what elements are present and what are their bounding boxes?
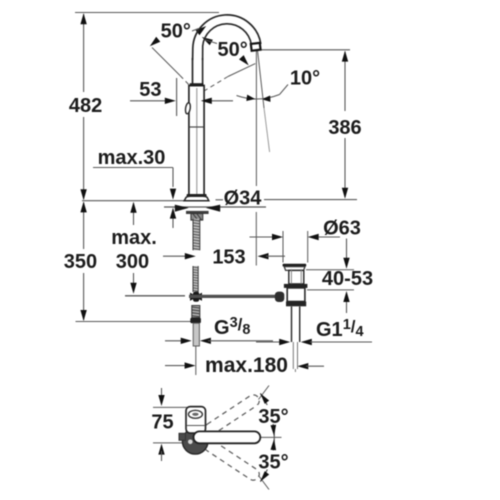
supply pipe lower	[193, 323, 199, 346]
water stream line	[258, 51, 264, 108]
mounting nut	[191, 214, 203, 221]
deck top line	[82, 200, 184, 202]
75 bottom extension	[153, 442, 189, 444]
50deg left leader line	[152, 48, 180, 76]
threaded shank	[193, 219, 200, 251]
faucet body	[189, 86, 204, 201]
svg-text:53: 53	[139, 79, 161, 101]
482 down arrow	[80, 189, 86, 200]
50deg right spout arrow	[202, 37, 213, 45]
swivel arc mid lower arrow	[271, 439, 277, 450]
O63 right arrow	[308, 234, 319, 240]
horizontal pop-up rod	[189, 295, 276, 298]
spout centerline extension	[258, 436, 282, 438]
350 bottom extension	[76, 321, 197, 323]
max30 leader	[93, 167, 173, 169]
swivel arc mid upper arrow	[271, 425, 277, 436]
50deg right diag arrow	[239, 55, 249, 65]
386 top extension	[260, 49, 350, 51]
svg-text:Ø34: Ø34	[224, 187, 263, 209]
G3/8 left arrow	[181, 338, 192, 344]
10deg right arc arrow	[262, 96, 271, 102]
svg-text:max.180: max.180	[205, 354, 288, 377]
top view spout	[194, 431, 261, 443]
rod clevis	[275, 292, 284, 302]
53 dimension	[130, 100, 165, 102]
top view body	[186, 407, 206, 434]
max300 dimension line	[133, 203, 135, 225]
faucet riser pipe	[192, 58, 194, 84]
svg-text:max.: max.	[111, 227, 157, 249]
drain lower band	[286, 302, 306, 307]
faucet spout outer curve	[193, 15, 261, 60]
swivel arc bottom arrow	[260, 471, 269, 482]
rod tee	[190, 293, 202, 301]
482 up arrow	[80, 13, 86, 24]
50deg left spout arrow	[196, 26, 207, 35]
svg-text:35°: 35°	[258, 406, 288, 428]
35deg label top	[257, 405, 291, 424]
drain center extension	[294, 369, 296, 372]
swivel arc	[260, 393, 274, 481]
body mid seam	[189, 126, 203, 128]
svg-text:482: 482	[69, 95, 102, 117]
350 up arrow	[80, 201, 86, 212]
G3/8 right arrow	[200, 338, 211, 344]
svg-text:max.30: max.30	[98, 147, 166, 169]
top view lever oval	[188, 410, 202, 418]
350 dimension line	[83, 203, 85, 250]
max180 dimension	[165, 365, 188, 367]
svg-text:10°: 10°	[290, 68, 320, 90]
clamp wedge right	[206, 205, 220, 212]
40-53 dimension line	[346, 239, 348, 262]
53 right arrow	[201, 98, 212, 104]
aerator	[251, 43, 261, 51]
max180 left arrow	[185, 362, 196, 368]
G3/8 dimension	[165, 340, 184, 342]
G1-1/4 right arrow	[301, 339, 312, 345]
drain tailpipe	[291, 307, 293, 343]
drain upper body	[289, 270, 304, 284]
wire top extension line	[75, 12, 219, 14]
drain nut band	[284, 284, 308, 288]
10deg leader	[280, 85, 289, 95]
top view left nub	[179, 433, 186, 440]
lower dashed axis extension	[259, 476, 270, 490]
75 dimension	[161, 388, 163, 398]
svg-text:40-53: 40-53	[322, 268, 373, 290]
drain lower body	[287, 288, 305, 302]
50deg left leader arrow	[150, 37, 161, 47]
svg-text:75: 75	[151, 412, 173, 434]
max300 bottom extension	[125, 295, 185, 297]
40-53 up arrow	[343, 291, 349, 302]
drain flange rim	[283, 264, 307, 267]
386 up arrow	[342, 51, 348, 62]
clamp wedge left	[175, 205, 189, 212]
35deg label bottom	[257, 451, 291, 470]
40-53 extension lines	[306, 269, 354, 271]
washer bar	[186, 211, 209, 214]
faucet spout inner curve	[203, 24, 252, 60]
node 482 dimension line	[83, 14, 85, 92]
75 top extension	[153, 406, 204, 408]
386 dimension line	[344, 52, 346, 112]
svg-text:300: 300	[116, 251, 149, 273]
base flange	[184, 196, 209, 201]
top view swivel ring	[182, 429, 208, 455]
max180 right arrow	[297, 363, 308, 369]
body joint band	[190, 83, 204, 86]
53 left arrow	[165, 98, 176, 104]
pull rod threaded	[193, 266, 198, 292]
O63 extension lines	[282, 231, 284, 263]
svg-text:153: 153	[212, 247, 245, 269]
153 right arrow	[258, 253, 269, 259]
10deg arc	[237, 95, 280, 100]
G1-1/4 dimension	[256, 341, 281, 343]
svg-text:Ø63: Ø63	[323, 218, 361, 240]
lever knob	[185, 102, 191, 114]
386 down arrow	[342, 188, 348, 199]
body center highlight line	[196, 88, 198, 196]
G3/8 connector	[192, 306, 200, 318]
max300 up arrow	[130, 202, 136, 213]
svg-text:50°: 50°	[161, 21, 191, 43]
svg-text:35°: 35°	[258, 452, 288, 474]
swivel dashed spout upper	[202, 393, 261, 438]
svg-text:350: 350	[64, 251, 97, 273]
10deg left arc arrow	[246, 95, 255, 101]
swivel dashed spout lower	[202, 438, 261, 483]
swivel arc top arrow	[260, 393, 269, 404]
G1-1/4 left arrow	[279, 339, 290, 345]
svg-text:386: 386	[328, 117, 361, 139]
max180 left extension	[195, 346, 197, 375]
75 down arrow	[158, 395, 164, 406]
O63 left arrow	[272, 234, 283, 240]
spout vertical reference line	[255, 50, 257, 186]
75 up arrow	[158, 444, 164, 455]
40-53 down arrow	[343, 258, 349, 269]
O63 dimension line	[250, 236, 273, 238]
drain flange lip	[284, 267, 305, 271]
153 left arrow	[185, 253, 196, 259]
max300 down arrow	[130, 283, 136, 294]
153 dimension	[163, 255, 189, 257]
max30 up arrow	[170, 208, 176, 219]
base plinth band	[187, 194, 207, 198]
upper dashed axis extension	[259, 386, 270, 400]
deck bottom line	[164, 206, 266, 208]
max30 down arrow	[170, 189, 176, 200]
350 down arrow	[80, 310, 86, 321]
